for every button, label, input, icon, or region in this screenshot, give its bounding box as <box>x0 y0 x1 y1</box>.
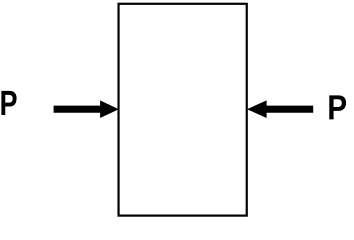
force arrow left (P pointing right into bar) <box>54 100 119 118</box>
label P right <box>329 95 346 119</box>
label P left <box>1 91 16 115</box>
force arrow right (P pointing left into bar) <box>247 100 313 118</box>
rectangular member (bar under axial compression) <box>119 4 247 216</box>
